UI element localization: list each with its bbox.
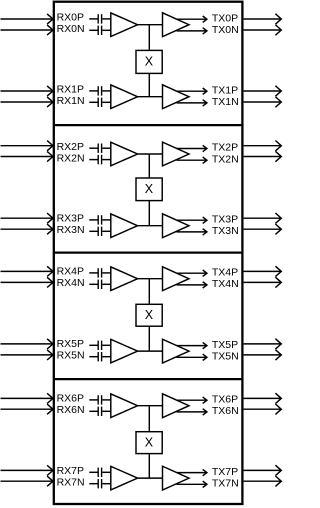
wire: channel 4 buffer output	[138, 278, 163, 280]
svg-text:TX0P: TX0P	[212, 12, 238, 24]
coupling capacitor on RX6P	[89, 395, 110, 404]
output driver channel 3	[163, 214, 190, 238]
wire: crosspoint mux to channel 7 output	[148, 454, 150, 479]
buffer amp channel 4	[111, 267, 138, 291]
output wire TX2N	[244, 151, 282, 161]
svg-text:TX6N: TX6N	[212, 405, 239, 417]
buffer amp channel 2	[111, 142, 138, 166]
wire: channel 4 output to crosspoint mux	[148, 279, 150, 305]
coupling capacitor on RX3N	[89, 227, 110, 236]
output wire TX5P	[244, 339, 282, 349]
wire: channel 6 buffer output	[138, 405, 163, 407]
svg-text:TX5N: TX5N	[212, 351, 239, 363]
wire: TX6P to label arrow	[177, 397, 207, 403]
svg-text:RX7P: RX7P	[57, 465, 84, 477]
wire: channel 3 buffer output	[138, 225, 163, 227]
output wire TX7P	[244, 465, 282, 475]
buffer amp channel 5	[111, 339, 138, 363]
svg-text:RX3N: RX3N	[57, 224, 85, 236]
section divider 2	[54, 251, 243, 253]
buffer amp channel 7	[111, 466, 138, 490]
svg-text:RX5P: RX5P	[57, 338, 84, 350]
svg-text:TX0N: TX0N	[212, 24, 239, 36]
output driver channel 0	[163, 13, 190, 37]
output wire TX3P	[244, 213, 282, 223]
wire: TX7P to label arrow	[177, 469, 207, 475]
svg-text:X: X	[145, 308, 154, 322]
svg-text:RX7N: RX7N	[57, 476, 85, 488]
wire: channel 2 buffer output	[138, 153, 163, 155]
coupling capacitor on RX2N	[89, 155, 110, 164]
svg-text:TX3P: TX3P	[212, 213, 238, 225]
svg-text:RX1P: RX1P	[57, 84, 84, 96]
output wire TX4P	[244, 266, 282, 276]
coupling capacitor on RX0N	[89, 26, 110, 35]
input wire RX3N	[1, 224, 54, 234]
svg-text:TX1N: TX1N	[212, 96, 239, 108]
wire: TX2P to label arrow	[177, 145, 207, 151]
wire: crosspoint mux to channel 3 output	[148, 201, 150, 226]
wire: TX5N to label arrow	[177, 354, 207, 360]
svg-text:RX0P: RX0P	[57, 12, 84, 24]
wire: channel 7 buffer output	[138, 477, 163, 479]
wire: TX4P to label arrow	[177, 270, 207, 276]
output wire TX3N	[244, 224, 282, 234]
output driver channel 1	[163, 85, 190, 109]
svg-text:RX3P: RX3P	[57, 213, 84, 225]
input wire RX7N	[1, 476, 54, 486]
output wire TX5N	[244, 350, 282, 360]
svg-text:RX5N: RX5N	[57, 349, 85, 361]
svg-text:RX2P: RX2P	[57, 141, 84, 153]
section divider 3	[54, 378, 243, 380]
wire: TX2N to label arrow	[177, 157, 207, 163]
wire: TX4N to label arrow	[177, 282, 207, 288]
output wire TX4N	[244, 277, 282, 287]
input wire RX6P	[1, 393, 54, 403]
buffer amp channel 1	[111, 85, 138, 109]
output wire TX7N	[244, 476, 282, 486]
wire: channel 0 buffer output	[138, 24, 163, 26]
coupling capacitor on RX0P	[89, 14, 110, 23]
input wire RX6N	[1, 404, 54, 414]
svg-text:RX1N: RX1N	[57, 95, 85, 107]
input wire RX5P	[1, 339, 54, 349]
svg-text:TX7P: TX7P	[212, 466, 238, 478]
wire: TX3P to label arrow	[177, 217, 207, 223]
wire: TX0P to label arrow	[177, 16, 207, 22]
input wire RX0N	[1, 25, 54, 35]
coupling capacitor on RX7N	[89, 479, 110, 488]
crosspoint mux X (section 1)	[136, 178, 162, 201]
svg-text:TX1P: TX1P	[212, 84, 238, 96]
output wire TX6P	[244, 393, 282, 403]
wire: TX3N to label arrow	[177, 229, 207, 235]
wire: TX1N to label arrow	[177, 100, 207, 106]
wire: channel 2 output to crosspoint mux	[148, 154, 150, 178]
input wire RX0P	[1, 14, 54, 24]
output driver channel 2	[163, 142, 190, 166]
svg-text:TX2N: TX2N	[212, 153, 239, 165]
wire: TX6N to label arrow	[177, 409, 207, 415]
svg-text:RX2N: RX2N	[57, 152, 85, 164]
wire: channel 5 buffer output	[138, 350, 163, 352]
input wire RX4N	[1, 277, 54, 287]
output wire TX0N	[244, 25, 282, 35]
wire: channel 6 output to crosspoint mux	[148, 406, 150, 432]
crosspoint mux X (section 3)	[136, 432, 162, 454]
output wire TX2P	[244, 141, 282, 151]
buffer amp channel 0	[111, 13, 138, 37]
svg-text:RX0N: RX0N	[57, 23, 85, 35]
section divider 1	[54, 124, 243, 126]
wire: crosspoint mux to channel 5 output	[148, 326, 150, 351]
buffer amp channel 3	[111, 214, 138, 238]
svg-text:X: X	[145, 182, 154, 196]
coupling capacitor on RX3P	[89, 215, 110, 224]
input wire RX3P	[1, 213, 54, 223]
wire: TX7N to label arrow	[177, 481, 207, 487]
input wire RX2P	[1, 141, 54, 151]
input wire RX2N	[1, 151, 54, 161]
coupling capacitor on RX1N	[89, 98, 110, 107]
output driver channel 6	[163, 394, 190, 418]
input wire RX7P	[1, 465, 54, 475]
output driver channel 7	[163, 466, 190, 490]
svg-text:X: X	[145, 55, 154, 69]
svg-text:X: X	[145, 435, 154, 449]
svg-text:TX3N: TX3N	[212, 225, 239, 237]
output wire TX1P	[244, 86, 282, 96]
input wire RX1P	[1, 86, 54, 96]
wire: channel 0 output to crosspoint mux	[148, 25, 150, 51]
svg-text:TX4N: TX4N	[212, 278, 239, 290]
wire: channel 1 buffer output	[138, 96, 163, 98]
input wire RX5N	[1, 350, 54, 360]
wire: TX5P to label arrow	[177, 342, 207, 348]
output wire TX0P	[244, 14, 282, 24]
coupling capacitor on RX5N	[89, 352, 110, 361]
buffer amp channel 6	[111, 394, 138, 418]
coupling capacitor on RX7P	[89, 468, 110, 477]
svg-text:RX6P: RX6P	[57, 393, 84, 405]
svg-text:TX6P: TX6P	[212, 393, 238, 405]
svg-text:RX4P: RX4P	[57, 266, 84, 278]
wire: crosspoint mux to channel 1 output	[148, 73, 150, 96]
wire: TX1P to label arrow	[177, 88, 207, 94]
crosspoint mux X (section 0)	[136, 50, 162, 73]
svg-text:TX4P: TX4P	[212, 266, 238, 278]
crosspoint mux X (section 2)	[136, 304, 162, 326]
input wire RX1N	[1, 97, 54, 107]
coupling capacitor on RX4N	[89, 280, 110, 289]
coupling capacitor on RX1P	[89, 86, 110, 95]
svg-text:TX2P: TX2P	[212, 142, 238, 154]
svg-text:RX4N: RX4N	[57, 277, 85, 289]
output driver channel 5	[163, 339, 190, 363]
coupling capacitor on RX2P	[89, 144, 110, 153]
svg-text:RX6N: RX6N	[57, 404, 85, 416]
svg-text:TX7N: TX7N	[212, 478, 239, 490]
outer box (device boundary)	[54, 2, 243, 504]
input wire RX4P	[1, 266, 54, 276]
coupling capacitor on RX6N	[89, 407, 110, 416]
coupling capacitor on RX5P	[89, 341, 110, 350]
output wire TX1N	[244, 97, 282, 107]
output wire TX6N	[244, 404, 282, 414]
wire: TX0N to label arrow	[177, 28, 207, 34]
svg-text:TX5P: TX5P	[212, 339, 238, 351]
output driver channel 4	[163, 267, 190, 291]
coupling capacitor on RX4P	[89, 268, 110, 277]
